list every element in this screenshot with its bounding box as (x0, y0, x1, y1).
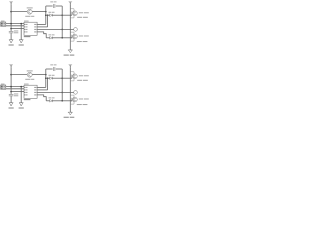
ground (rail B) (64, 50, 75, 56)
wire: gate of Q21 (62, 77, 72, 79)
node: rail to Q1A branch (10, 11, 12, 13)
capacitor C1A (bulk) (9, 29, 18, 40)
wire: ground leg (20, 24, 22, 40)
wire: mid rail (61, 6, 63, 38)
wire: riser to C2B and U21 pin1 (45, 69, 47, 87)
node: output terminal O1 (74, 28, 78, 32)
wire: Q21 drain stub (70, 72, 74, 74)
node: diode1/mid-rail (61, 77, 63, 79)
node: ground leg tap (20, 23, 22, 25)
capacitor C1B (46, 1, 62, 8)
op-amp U21 (driver IC) (24, 84, 37, 101)
node: riser/diode line (45, 77, 47, 79)
wire: J2 pin2 net (6, 88, 24, 90)
node: riser/diode line (45, 14, 47, 16)
wire: rail to U11 supply pin (11, 28, 24, 30)
ground (cap C1A) (9, 40, 14, 46)
wire: J1 pin1 net (6, 23, 24, 25)
wire: U21 pin4 jog to diode 2 (37, 95, 46, 101)
node: output riser junction (45, 11, 47, 13)
transistor Q21 (72, 74, 89, 81)
node: riser2/diode line (47, 77, 49, 79)
wire: Q1A output (32, 11, 46, 13)
wire: Q11 source stub (70, 16, 74, 18)
power flag V2B (68, 65, 72, 68)
node: pin3 line/mid-rail (61, 92, 63, 94)
wire: Q12 drain stub (70, 32, 74, 34)
wire: rail to U21 supply pin (11, 91, 24, 93)
wire: Q22 source stub (70, 102, 74, 104)
node: cap tap (10, 28, 12, 30)
wire: U11 pin4 jog to diode 2 (37, 32, 46, 38)
transistor Q11 (72, 11, 89, 18)
wire: J1 pin2 net (6, 25, 24, 27)
node: cap tap (10, 91, 12, 93)
ground (logic) (19, 40, 24, 46)
wire: supply rail B (69, 67, 71, 112)
node: rail tap (10, 86, 12, 88)
wire: U11 pin1 stub (37, 23, 46, 25)
wire: mid rail (61, 69, 63, 101)
wire: ground leg (20, 87, 22, 103)
wire: to Q1A input (11, 11, 27, 13)
node: diode1/mid-rail (61, 14, 63, 16)
wire: Q11 drain stub (70, 9, 74, 11)
node: rail tap (10, 23, 12, 25)
diode D2B (46, 97, 62, 102)
wire: U11 pin3 to output terminal (37, 28, 73, 30)
transistor Q1A (25, 7, 34, 16)
diode D2A (46, 75, 62, 80)
wire: Q22 drain stub (70, 95, 74, 97)
connector J1 (1, 21, 6, 27)
wire: gate of Q12 (62, 37, 72, 39)
node: riser2/diode line (47, 14, 49, 16)
wire: +V rail vertical (10, 67, 12, 91)
node: rail to Q2A branch (10, 74, 12, 76)
node: output riser junction (45, 74, 47, 76)
transistor Q12 (72, 34, 89, 42)
power flag V1A (9, 2, 13, 5)
wire: riser to C1B and U11 pin1 (45, 6, 47, 24)
ground (cap C2A) (9, 103, 14, 109)
node: diode2/mid-rail (61, 37, 63, 39)
wire: U21 pin3 to output terminal (37, 91, 73, 93)
transistor Q22 (72, 97, 89, 105)
capacitor C2B (46, 64, 62, 71)
wire: J2 pin1 net (6, 86, 24, 88)
node: output terminal O2 (74, 91, 78, 95)
wire: supply rail B (69, 4, 71, 50)
wire: Q12 source stub (70, 39, 74, 41)
wire: +V rail vertical (10, 4, 12, 28)
wire: Q2A output (32, 74, 46, 76)
op-amp U11 (driver IC) (24, 21, 37, 38)
connector J2 (1, 84, 6, 90)
wire: riser to U21 pin2 (47, 78, 49, 90)
wire: U21 pin1 stub (37, 86, 46, 88)
power flag V1B (68, 2, 72, 5)
node: pin3 line/mid-rail (61, 29, 63, 31)
wire: U21 pin2 stub (37, 89, 48, 91)
ground (logic) (19, 103, 24, 109)
wire: gate of Q22 (62, 100, 72, 102)
wire: Q21 source stub (70, 79, 74, 81)
diode D1B (46, 34, 62, 39)
power flag V2A (9, 65, 13, 68)
wire: riser to U11 pin2 (47, 15, 49, 27)
wire: gate of Q11 (62, 14, 72, 16)
diode D1A (46, 12, 62, 17)
node: ground leg tap (20, 86, 22, 88)
capacitor C2A (bulk) (9, 92, 18, 103)
node: diode2/mid-rail (61, 100, 63, 102)
wire: U11 pin2 stub (37, 26, 48, 28)
wire: to Q2A input (11, 74, 27, 76)
ground (rail B) (64, 112, 75, 118)
transistor Q2A (25, 70, 34, 79)
